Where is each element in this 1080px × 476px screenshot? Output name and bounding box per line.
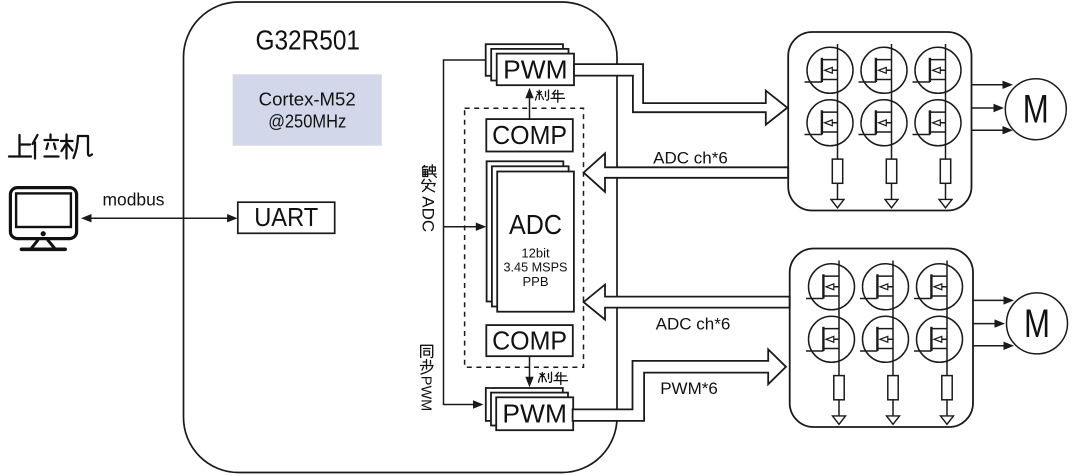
phase wires bridge2 to motor2 [973, 296, 1014, 350]
svg-text:Cortex-M52: Cortex-M52 [259, 88, 356, 109]
svg-text:modbus: modbus [103, 190, 165, 210]
wire trunk from PWM1 down to PWM2 [444, 60, 486, 405]
host PC monitor icon [10, 188, 76, 250]
hollow arrow PWM1 to bridge1 [574, 64, 787, 125]
inverter bridge 1 [788, 32, 971, 211]
glyph che [554, 373, 568, 385]
MCU outline G32R501 [184, 2, 618, 473]
svg-text:COMP: COMP [492, 327, 567, 355]
arrowhead into PWM2 [473, 400, 484, 408]
PWM2 stack [486, 388, 573, 430]
label 上位机 (host) hand-drawn glyphs [9, 135, 92, 159]
hollow arrow bridge2 to ADC (ADC ch*6) [584, 285, 790, 320]
glyph che [551, 90, 565, 102]
glyph fa [422, 179, 435, 192]
dashed analog subsystem box [465, 108, 584, 367]
svg-text:PWM: PWM [502, 400, 567, 428]
arrowhead into ADC [476, 223, 487, 231]
wire brake arrow COMP1 to PWM1 [525, 88, 533, 119]
motor 2 [1007, 293, 1068, 354]
svg-text:PWM: PWM [503, 56, 568, 84]
svg-text:PWM*6: PWM*6 [660, 379, 718, 398]
inverter bridge 2 [790, 249, 973, 428]
block UART [238, 202, 335, 233]
wire trigger ADC branch [444, 226, 478, 228]
glyph ji [61, 135, 92, 159]
wire modbus double arrow [81, 214, 238, 222]
glyph tong [421, 345, 433, 357]
label brake1 刹车 [536, 90, 565, 102]
block COMP1 [486, 119, 573, 151]
hollow arrow PWM2 to bridge2 (PWM*6) [573, 349, 786, 421]
block COMP2 [486, 325, 573, 356]
svg-text:ADC: ADC [419, 196, 438, 232]
glyph bu [421, 360, 434, 375]
motor 1 [1005, 79, 1066, 140]
label 同步 PWM (sync PWM) [421, 345, 434, 374]
Cortex-M52 block [233, 74, 382, 145]
PWM1 stack [486, 44, 574, 85]
svg-text:COMP: COMP [492, 122, 567, 150]
glyph wei [33, 135, 59, 159]
label brake2 刹车 [539, 372, 568, 384]
hollow arrow bridge1 to ADC (ADC ch*6) [584, 153, 789, 191]
svg-text:G32R501: G32R501 [256, 25, 361, 56]
glyph chu [422, 165, 436, 178]
svg-text:PWM: PWM [417, 376, 433, 411]
label 触发 ADC (trigger ADC) [422, 165, 437, 192]
svg-text:ADC ch*6: ADC ch*6 [653, 148, 728, 167]
svg-text:PPB: PPB [522, 274, 548, 289]
svg-text:@250MHz: @250MHz [268, 110, 346, 131]
svg-text:ADC: ADC [509, 209, 562, 240]
phase wires bridge1 to motor1 [972, 81, 1014, 135]
glyph sha [539, 372, 552, 382]
svg-text:UART: UART [254, 202, 318, 232]
svg-text:12bit: 12bit [521, 245, 550, 260]
ADC stack [487, 161, 574, 311]
glyph sha [536, 90, 549, 100]
svg-text:ADC ch*6: ADC ch*6 [656, 315, 731, 334]
wire brake arrow COMP2 to PWM2 [525, 356, 533, 387]
glyph shang [9, 135, 31, 157]
svg-text:3.45 MSPS: 3.45 MSPS [504, 260, 568, 275]
